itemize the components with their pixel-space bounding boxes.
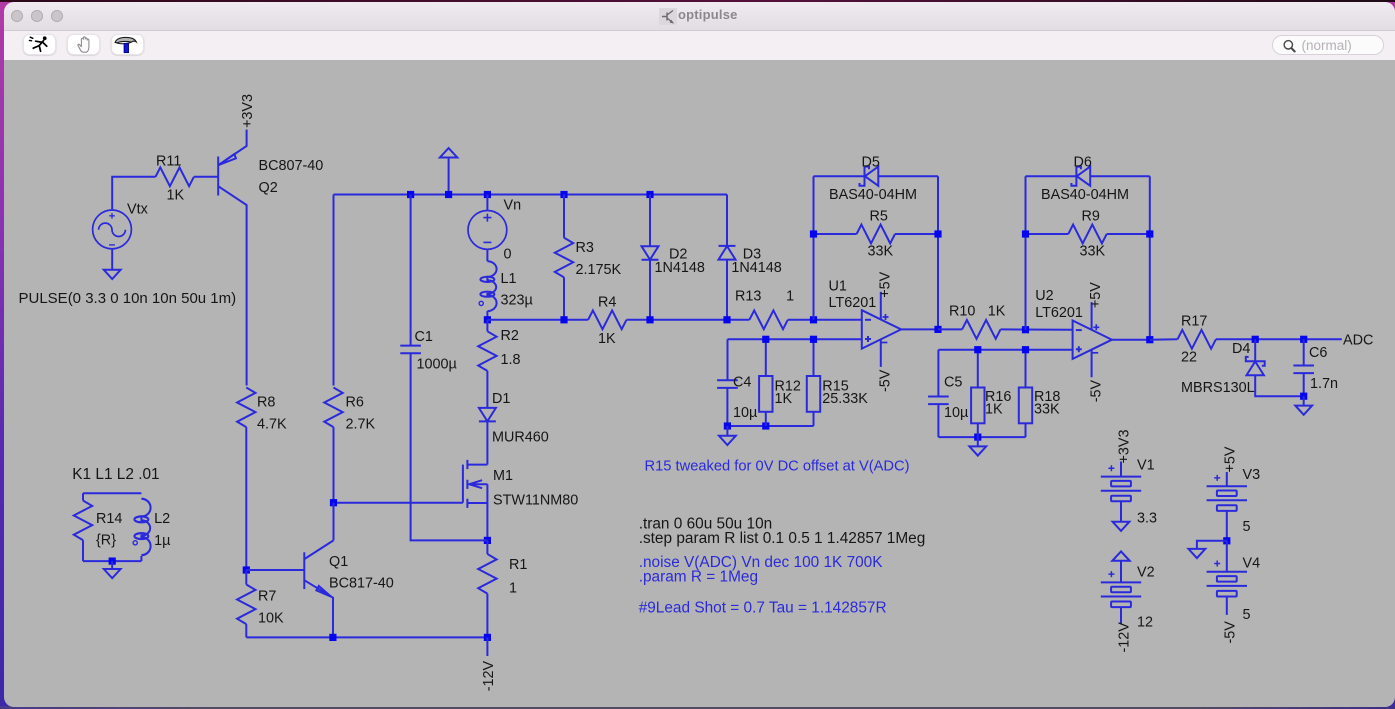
svg-text:1: 1 <box>509 581 517 597</box>
V3 body <box>1206 475 1246 511</box>
wire D6 wire <box>1025 175 1149 177</box>
svg-text:Q1: Q1 <box>329 554 348 570</box>
transistor Q2 (PNP BC807-40) <box>218 130 246 386</box>
wire to R17 <box>1149 338 1177 340</box>
resistor R12 <box>759 376 772 412</box>
ground (V1) <box>1112 522 1129 531</box>
svg-text:+3V3: +3V3 <box>1116 429 1132 463</box>
svg-text:V4: V4 <box>1242 556 1260 572</box>
V2 body <box>1100 571 1140 607</box>
wire V2 bottom lead <box>1120 607 1122 624</box>
svg-text:1K: 1K <box>598 331 616 347</box>
wire V4 bottom lead <box>1225 597 1227 615</box>
svg-text:U2: U2 <box>1035 288 1053 304</box>
svg-text:33K: 33K <box>1034 402 1060 418</box>
wire R14 leads <box>82 493 84 561</box>
svg-text:R11: R11 <box>156 154 181 170</box>
svg-text:L1: L1 <box>500 271 516 287</box>
svg-text:2.175K: 2.175K <box>575 262 621 278</box>
wire K1 bottom wire <box>83 560 141 562</box>
wire V3 top lead <box>1225 472 1227 486</box>
wire rail corner to D3 <box>726 195 728 246</box>
wire C5 bottom row <box>938 423 1025 437</box>
wire R1 leads <box>486 540 488 637</box>
resistor R10 <box>962 320 1000 339</box>
wire R3 leads <box>563 195 565 320</box>
svg-text:R2: R2 <box>500 328 518 344</box>
svg-text:Vn: Vn <box>503 198 521 214</box>
wire R12 leads <box>764 339 766 426</box>
wire C1 to M1 source node <box>410 353 487 540</box>
wire R6 to gate node <box>332 427 334 503</box>
wire top rail <box>333 194 727 196</box>
V1 body <box>1100 465 1140 501</box>
resistor R7 <box>237 585 255 625</box>
svg-text:V3: V3 <box>1242 467 1260 483</box>
wire C6 bottom lead <box>1302 373 1304 396</box>
capacitor C5 <box>928 397 949 405</box>
wire L2 bottom lead <box>140 556 142 561</box>
diode D1 (MUR460) <box>478 408 495 422</box>
wire R16 leads <box>976 350 978 437</box>
run icon <box>29 36 46 51</box>
svg-text:323µ: 323µ <box>500 293 532 309</box>
wire out1 to R10 <box>938 328 962 330</box>
svg-text:R17: R17 <box>1181 314 1207 330</box>
svg-text:R15 tweaked for 0V DC offset a: R15 tweaked for 0V DC offset at V(ADC) <box>644 459 909 475</box>
svg-text:+3V3: +3V3 <box>240 94 256 128</box>
wire V2 top lead <box>1120 561 1122 583</box>
wire Vn to L1 <box>486 250 488 262</box>
svg-text:3.3: 3.3 <box>1137 511 1157 527</box>
wire flag stem <box>447 158 449 195</box>
svg-text:D1: D1 <box>492 391 510 407</box>
resistor R8 <box>237 388 255 428</box>
svg-text:10K: 10K <box>258 611 284 627</box>
wire R15 top lead <box>812 339 814 376</box>
wire U2 output <box>1111 339 1150 341</box>
svg-text:-5V: -5V <box>877 369 893 392</box>
svg-text:#9Lead Shot = 0.7 Tau = 1.1428: #9Lead Shot = 0.7 Tau = 1.142857R <box>638 600 886 617</box>
svg-text:1K: 1K <box>774 391 792 407</box>
wire K1 ground stub <box>111 561 113 569</box>
svg-text:.param R = 1Meg: .param R = 1Meg <box>638 569 757 586</box>
svg-text:-12V: -12V <box>480 661 496 692</box>
svg-text:R4: R4 <box>598 295 616 311</box>
wire rail to R6 <box>332 195 334 386</box>
diode D3 body <box>718 246 735 260</box>
resistor R1 <box>478 554 496 594</box>
svg-text:-12V: -12V <box>1116 622 1132 653</box>
svg-text:25.33K: 25.33K <box>822 391 868 407</box>
svg-text:33K: 33K <box>867 244 893 260</box>
svg-text:R5: R5 <box>869 209 887 225</box>
resistor R18 <box>1018 388 1031 424</box>
svg-text:D6: D6 <box>1073 155 1091 171</box>
svg-text:1N4148: 1N4148 <box>654 260 704 276</box>
svg-text:K1 L1 L2 .01: K1 L1 L2 .01 <box>72 466 159 483</box>
wire feedback right vertical U2 <box>1148 176 1150 340</box>
inductor L1 <box>480 261 496 311</box>
wire bottom -12V rail <box>246 636 487 638</box>
inductor L2 <box>134 499 150 555</box>
flag triangle <box>439 148 456 157</box>
transistor M1 (NMOS STW11NM80) <box>462 460 487 541</box>
svg-text:BAS40-04HM: BAS40-04HM <box>829 187 917 203</box>
svg-text:U1: U1 <box>828 279 846 295</box>
wire -12V stub <box>486 637 488 656</box>
resistor R9 <box>1068 225 1106 244</box>
svg-text:M1: M1 <box>493 468 513 484</box>
svg-text:STW11NM80: STW11NM80 <box>493 493 578 509</box>
svg-text:1K: 1K <box>985 402 1003 418</box>
resistor R6 <box>324 388 342 428</box>
svg-text:LT6201: LT6201 <box>828 295 876 311</box>
voltage source Vtx <box>92 210 131 249</box>
svg-text:1000µ: 1000µ <box>416 357 456 373</box>
wire D5 wire <box>813 175 938 177</box>
svg-text:R9: R9 <box>1081 209 1099 225</box>
capacitor C4 <box>717 380 738 388</box>
wire R17 to ADC <box>1215 338 1341 340</box>
svg-text:PULSE(0 3.3 0 10n 10n 50u 1m): PULSE(0 3.3 0 10n 10n 50u 1m) <box>18 290 236 307</box>
svg-text:+5V: +5V <box>877 271 893 297</box>
wire V1 top lead <box>1120 462 1122 477</box>
svg-text:5: 5 <box>1242 607 1250 623</box>
svg-text:R10: R10 <box>949 304 975 320</box>
svg-text:V1: V1 <box>1137 458 1155 474</box>
wire feedback left vertical U1 <box>812 176 814 320</box>
resistor R14 <box>73 501 91 541</box>
wire R18 top lead <box>1024 350 1026 388</box>
wire R2 leads <box>486 320 488 408</box>
op-amp U1 (LT6201) <box>861 292 900 367</box>
wire C4 bottom row <box>727 412 813 426</box>
svg-text:{R}: {R} <box>96 533 116 549</box>
resistor R4 <box>588 310 626 329</box>
wire rail to C1 <box>409 195 411 346</box>
capacitor C1 <box>400 346 421 354</box>
op-amp U2 (LT6201) <box>1072 302 1111 377</box>
wire C6 ground stub <box>1302 396 1304 405</box>
svg-text:BC817-40: BC817-40 <box>329 576 394 592</box>
svg-text:R13: R13 <box>735 289 761 305</box>
resistor R16 <box>971 388 984 424</box>
wire feedback right vertical U1 <box>937 176 939 329</box>
svg-text:-5V: -5V <box>1088 380 1104 403</box>
wire to C6 <box>1302 339 1304 365</box>
wire U1 +in row / C4 lead <box>727 339 861 380</box>
svg-text:C5: C5 <box>944 375 962 391</box>
svg-text:R7: R7 <box>258 589 276 605</box>
svg-text:Vtx: Vtx <box>127 202 149 218</box>
svg-text:5: 5 <box>1242 519 1250 535</box>
svg-text:D4: D4 <box>1232 341 1250 357</box>
wire mid ground wire <box>1196 541 1226 549</box>
diode D6 (BAS40-04HM) <box>1071 167 1090 186</box>
svg-text:V2: V2 <box>1137 565 1155 581</box>
diode D4 (MBRS130L) <box>1245 357 1264 375</box>
wire rail to D2 <box>649 195 651 247</box>
wire V4 top lead <box>1225 541 1227 572</box>
capacitor C6 <box>1293 366 1314 374</box>
svg-text:MUR460: MUR460 <box>492 430 549 446</box>
svg-text:ADC: ADC <box>1343 333 1373 349</box>
resistor R13 <box>749 310 787 329</box>
wire D3 to row <box>726 260 728 320</box>
svg-text:BAS40-04HM: BAS40-04HM <box>1041 187 1129 203</box>
svg-text:Q2: Q2 <box>258 180 277 196</box>
svg-text:-5V: -5V <box>1222 621 1238 644</box>
svg-text:10µ: 10µ <box>733 405 757 421</box>
wire U1 output <box>901 328 938 330</box>
wire V3 bottom lead <box>1225 511 1227 541</box>
V4 body <box>1206 561 1246 597</box>
diode D2 body <box>641 246 658 260</box>
wire node to Q1 collector <box>332 503 334 541</box>
svg-text:C1: C1 <box>414 329 432 345</box>
svg-text:1µ: 1µ <box>154 533 170 549</box>
wire U2 +in row / C5 lead <box>938 350 1072 397</box>
wire rail to Vn <box>486 195 488 211</box>
hammer icon <box>115 37 136 52</box>
resistor R11 <box>155 167 193 186</box>
ground (C5) <box>969 446 986 455</box>
wire C5 ground stub <box>976 437 978 446</box>
svg-text:+5V: +5V <box>1088 282 1104 308</box>
wire V1 bottom lead <box>1120 501 1122 521</box>
ground (Vtx) <box>103 270 120 279</box>
svg-text:R6: R6 <box>345 395 363 411</box>
resistor R2 <box>478 331 496 371</box>
svg-text:1N4148: 1N4148 <box>731 260 781 276</box>
ground (K1 block) <box>103 569 120 578</box>
svg-text:1: 1 <box>786 289 794 305</box>
transistor Q1 (NPN BC817-40) <box>246 540 333 637</box>
hand icon <box>78 37 89 52</box>
resistor R17 <box>1177 330 1215 349</box>
wire L1 to node <box>486 311 488 320</box>
svg-text:MBRS130L: MBRS130L <box>1181 380 1255 396</box>
wire D1 to M1 drain <box>486 421 488 464</box>
svg-text:12: 12 <box>1137 615 1153 631</box>
svg-text:R8: R8 <box>257 395 275 411</box>
resistor R3 <box>554 238 572 278</box>
svg-text:1K: 1K <box>987 304 1005 320</box>
svg-text:2.7K: 2.7K <box>345 417 375 433</box>
resistor R15 <box>806 376 819 412</box>
wire feedback left vertical U2 <box>1024 176 1026 330</box>
wire Vtx to R11 <box>112 177 155 210</box>
svg-text:22: 22 <box>1181 350 1197 366</box>
wire R9 wire <box>1025 233 1149 235</box>
svg-text:1.7n: 1.7n <box>1310 376 1338 392</box>
wire C5 bottom lead <box>937 404 939 437</box>
svg-text:0: 0 <box>503 247 511 263</box>
wire R10 to U2 -in <box>1000 328 1072 330</box>
resistor R5 <box>856 225 894 244</box>
wire D4 bottom wire <box>1255 375 1304 396</box>
svg-text:D5: D5 <box>861 155 879 171</box>
svg-text:1.8: 1.8 <box>500 352 520 368</box>
svg-text:+5V: +5V <box>1222 446 1238 472</box>
svg-text:R3: R3 <box>575 240 593 256</box>
svg-text:4.7K: 4.7K <box>257 417 287 433</box>
wire C4 ground stub <box>726 426 728 436</box>
wire gate wire <box>332 502 462 504</box>
svg-text:R14: R14 <box>96 511 122 527</box>
wire R8 leads <box>245 427 247 570</box>
wire D2 to row <box>649 260 651 320</box>
ground (C6) <box>1295 406 1312 415</box>
svg-text:R1: R1 <box>509 557 527 573</box>
wire row1 to U1 -in <box>487 319 861 321</box>
wire R11 to Q2 base <box>193 176 217 178</box>
wire R5 wire <box>813 233 938 235</box>
ground (V3/V4) <box>1188 549 1205 558</box>
wire K1 top wire <box>83 492 141 494</box>
svg-text:10µ: 10µ <box>944 405 968 421</box>
svg-text:LT6201: LT6201 <box>1035 305 1083 321</box>
flag (V2 top) <box>1112 551 1129 560</box>
ground (C4) <box>719 436 736 445</box>
diode D5 (BAS40-04HM) <box>859 167 878 186</box>
svg-text:BC807-40: BC807-40 <box>258 158 323 174</box>
svg-text:1K: 1K <box>166 188 184 204</box>
svg-text:.step param R list 0.1 0.5 1 1: .step param R list 0.1 0.5 1 1.42857 1Me… <box>638 530 925 547</box>
svg-text:C4: C4 <box>733 375 751 391</box>
svg-text:L2: L2 <box>154 511 170 527</box>
wire to D4 <box>1254 339 1256 361</box>
wire C4 bottom lead <box>726 388 728 426</box>
wire R7 leads <box>245 570 247 637</box>
wire Vtx to ground <box>111 249 113 270</box>
svg-text:C6: C6 <box>1309 345 1327 361</box>
voltage source Vn <box>468 211 507 250</box>
svg-text:33K: 33K <box>1079 244 1105 260</box>
